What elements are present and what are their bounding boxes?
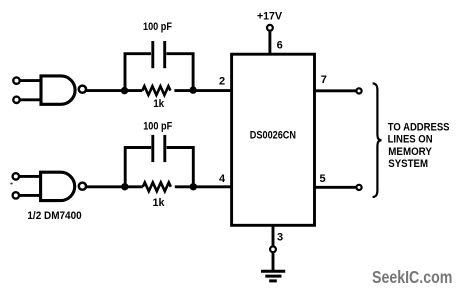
svg-text:3: 3 xyxy=(277,231,283,243)
svg-text:SYSTEM: SYSTEM xyxy=(388,158,428,170)
svg-text:+17V: +17V xyxy=(257,10,283,22)
svg-text:SeekIC.com: SeekIC.com xyxy=(372,267,452,287)
svg-text:1/2 DM7400: 1/2 DM7400 xyxy=(27,210,81,222)
svg-text:100 pF: 100 pF xyxy=(143,121,172,133)
svg-text:TO ADDRESS: TO ADDRESS xyxy=(388,121,450,133)
svg-text:1k: 1k xyxy=(153,98,165,110)
svg-text:4: 4 xyxy=(219,173,226,185)
svg-text:100 pF: 100 pF xyxy=(143,21,172,33)
svg-text:7: 7 xyxy=(321,74,327,86)
svg-text:6: 6 xyxy=(277,39,283,51)
svg-text:LINES ON: LINES ON xyxy=(388,134,433,146)
svg-text:1k: 1k xyxy=(153,197,166,209)
svg-text:MEMORY: MEMORY xyxy=(388,146,432,158)
svg-text:5: 5 xyxy=(320,173,326,185)
svg-text:DS0026CN: DS0026CN xyxy=(250,130,296,142)
svg-text:2: 2 xyxy=(219,76,225,88)
